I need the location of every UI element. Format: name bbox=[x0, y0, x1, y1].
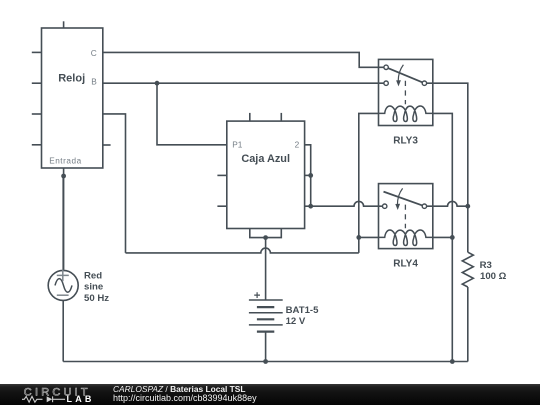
Reloj block U1 body bbox=[42, 28, 103, 168]
Reloj top pin bbox=[63, 21, 65, 28]
wire: RLY4 right terminal with hop to vertical bbox=[424, 201, 467, 206]
voltage source V1 wire top bbox=[62, 176, 64, 271]
node: junction on B wire bbox=[155, 81, 160, 86]
wire: source bottom to rail bbox=[62, 300, 64, 361]
footer text line 1 bbox=[113, 384, 246, 394]
CircuitLab logo bbox=[0, 384, 100, 405]
wire: mid rail with hop over battery wire bbox=[126, 248, 359, 253]
battery BAT1-5 plates bbox=[249, 299, 283, 301]
svg-text:sine: sine bbox=[84, 282, 103, 293]
svg-text:P1: P1 bbox=[232, 139, 243, 149]
svg-text:RLY3: RLY3 bbox=[393, 136, 418, 147]
Reloj left pin stub 3 bbox=[32, 113, 42, 115]
node: junction at Caja bottom bbox=[263, 235, 268, 240]
relay RLY4 body bbox=[379, 184, 433, 249]
Reloj right pin stub (row 4) bbox=[103, 144, 111, 146]
voltage source V1 plus sign bbox=[57, 270, 69, 282]
wire: pin2 net to RLY4 left terminal with hop bbox=[311, 201, 385, 206]
wire: branch from B wire down to Caja Azul P1 bbox=[157, 83, 227, 145]
wire: Caja Azul right pin row3 stub bbox=[305, 205, 311, 207]
svg-text:C: C bbox=[91, 48, 97, 58]
svg-text:50 Hz: 50 Hz bbox=[84, 293, 109, 304]
wire: RLY3 coil-right down the right side bbox=[433, 113, 453, 361]
wire: RLY3 coil-left loop down to RLY4 coil-left bbox=[359, 113, 379, 253]
wire: Reloj pin3 right then down to mid rail bbox=[103, 114, 126, 253]
wire: Caja Azul right pin row2 stub bbox=[305, 174, 311, 176]
svg-text:RLY4: RLY4 bbox=[393, 259, 418, 270]
svg-text:Caja Azul: Caja Azul bbox=[241, 153, 290, 165]
relay RLY3 body bbox=[379, 59, 433, 125]
relay RLY4 mechanical dashed link bbox=[404, 205, 406, 229]
battery plus sign bbox=[254, 292, 260, 298]
relay RLY3 arrow bbox=[398, 65, 403, 82]
wire: Reloj C to RLY3 NC terminal bbox=[103, 52, 386, 67]
svg-text:LAB: LAB bbox=[67, 394, 95, 404]
svg-text:Reloj: Reloj bbox=[58, 73, 85, 85]
wire: Reloj B to RLY3 NO terminal bbox=[103, 82, 386, 84]
relay RLY3 NO terminal bbox=[384, 81, 388, 85]
footer bar bbox=[0, 384, 540, 405]
node: junction battery at rail bbox=[263, 359, 268, 364]
wire: bottom ground rail bbox=[63, 361, 468, 363]
node: junction RLY4 right net bbox=[465, 204, 470, 209]
footer text line 2 bbox=[113, 393, 257, 403]
wire: Caja Azul pin2 right and down bbox=[305, 145, 311, 206]
wire: R3 bottom to ground rail bbox=[467, 287, 469, 362]
relay RLY4 right terminal bbox=[422, 204, 426, 208]
relay RLY3 mechanical dashed link bbox=[404, 81, 406, 104]
wire: RLY4 coil-left bbox=[359, 236, 379, 238]
node: junction below Reloj Entrada pin bbox=[61, 174, 66, 179]
Caja Azul top pin stub 2 bbox=[280, 113, 282, 121]
node: junction coil-right net at RLY4 bbox=[450, 235, 455, 240]
Caja Azul top pin stub 1 bbox=[249, 113, 251, 121]
svg-text:B: B bbox=[91, 77, 97, 87]
relay RLY4 left terminal bbox=[383, 204, 387, 208]
voltage source V1 sine bbox=[55, 279, 72, 293]
Caja Azul left pin stub row3 bbox=[217, 205, 226, 207]
svg-text:R3: R3 bbox=[480, 260, 492, 271]
node: junction Caja right row2 bbox=[308, 173, 313, 178]
node: junction Caja right row3 bbox=[308, 204, 313, 209]
Reloj left pin stub 1 bbox=[32, 51, 42, 53]
wire: Caja bottom down to battery plus bbox=[265, 238, 267, 300]
Caja Azul left pin stub row2 bbox=[217, 174, 226, 176]
svg-text:12 V: 12 V bbox=[286, 316, 306, 327]
wire: Caja Azul bottom pins joined bbox=[250, 229, 281, 238]
node: junction coil-left net bbox=[356, 235, 361, 240]
svg-text:Red: Red bbox=[84, 270, 102, 281]
resistor R3 zigzag bbox=[462, 252, 473, 287]
svg-text:BAT1-5: BAT1-5 bbox=[286, 305, 320, 316]
relay RLY4 arrow bbox=[397, 188, 402, 205]
relay RLY4 coil bbox=[379, 230, 433, 245]
voltage source V1 circle bbox=[48, 270, 78, 300]
svg-text:100 Ω: 100 Ω bbox=[480, 271, 507, 282]
Reloj left pin stub 4 bbox=[32, 144, 42, 146]
Reloj left pin stub 2 bbox=[32, 82, 42, 84]
relay RLY4 blade bbox=[384, 192, 425, 207]
svg-text:2: 2 bbox=[295, 139, 300, 149]
voltage source V1 minus sign bbox=[57, 294, 69, 296]
relay RLY3 blade bbox=[386, 67, 424, 83]
wire: Reloj bottom pin down to source bbox=[63, 168, 65, 272]
relay RLY3 coil bbox=[379, 106, 433, 121]
relay RLY3 common terminal bbox=[422, 81, 426, 85]
wire: battery bottom to rail bbox=[265, 332, 267, 362]
svg-text:Entrada: Entrada bbox=[49, 157, 82, 166]
relay RLY3 NC terminal bbox=[384, 65, 388, 69]
Caja Azul block body bbox=[227, 121, 305, 228]
node: junction coil-right net at rail bbox=[450, 359, 455, 364]
wire: RLY4 coil-right bbox=[433, 236, 453, 238]
wire: RLY3 common right terminal down to R3 bbox=[424, 83, 467, 252]
